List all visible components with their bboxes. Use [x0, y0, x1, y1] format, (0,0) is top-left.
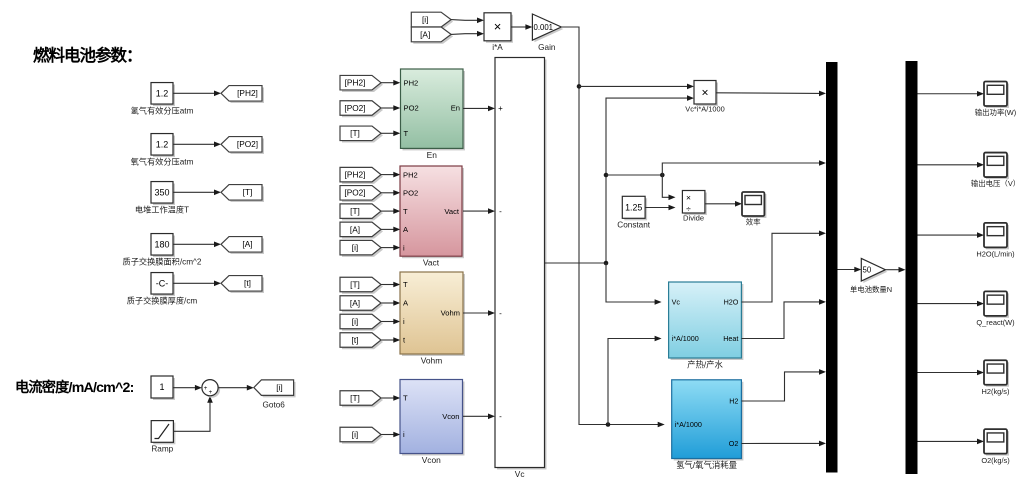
wire	[381, 80, 400, 86]
wire demux to scope	[918, 301, 985, 307]
wire	[381, 319, 400, 325]
wire	[381, 190, 400, 196]
scope H2(kg/s)	[982, 360, 1010, 396]
wire	[218, 385, 254, 391]
svg-text:Vcon: Vcon	[442, 412, 459, 421]
svg-text:PO2: PO2	[403, 188, 418, 197]
wire	[381, 395, 400, 401]
svg-text:Constant: Constant	[617, 221, 650, 230]
svg-text:+: +	[498, 104, 503, 113]
svg-text:Vc: Vc	[515, 469, 525, 479]
svg-text:+: +	[209, 389, 213, 396]
wire O2 to mux	[741, 441, 826, 447]
svg-text:En: En	[427, 150, 438, 160]
svg-text:氢气/氧气消耗量: 氢气/氧气消耗量	[676, 460, 737, 470]
wire	[381, 208, 400, 214]
display block 效率	[742, 192, 766, 227]
svg-text:Vc: Vc	[672, 298, 681, 307]
svg-text:+: +	[204, 385, 208, 392]
svg-text:50: 50	[863, 266, 872, 275]
svg-text:Ramp: Ramp	[151, 445, 173, 454]
wire	[381, 337, 400, 343]
svg-text:[T]: [T]	[350, 279, 360, 289]
gain block Gain 0.001	[532, 14, 563, 52]
svg-text:i*A: i*A	[492, 43, 503, 52]
wire	[173, 190, 221, 196]
wire	[173, 91, 221, 97]
product block Vc*i*A/1000	[685, 81, 724, 114]
goto [PH2]	[221, 86, 264, 104]
svg-text:[PH2]: [PH2]	[237, 88, 258, 98]
subsystem Vact	[400, 166, 464, 268]
svg-text:[PH2]: [PH2]	[345, 78, 366, 88]
from [t] (Vohm input)	[340, 333, 383, 350]
svg-text:Divide: Divide	[683, 214, 704, 223]
constant P_H2 (1.2)	[131, 83, 194, 116]
svg-text:输出电压（V）: 输出电压（V）	[971, 179, 1020, 188]
svg-text:i*A/1000: i*A/1000	[675, 420, 702, 429]
wire Heat to mux	[741, 299, 826, 338]
wire	[381, 105, 400, 111]
svg-text:[t]: [t]	[244, 278, 251, 288]
svg-text:[i]: [i]	[352, 316, 358, 326]
svg-text:Vc*i*A/1000: Vc*i*A/1000	[685, 105, 724, 114]
svg-text:Q_react(W): Q_react(W)	[976, 318, 1014, 327]
svg-text:[i]: [i]	[276, 383, 282, 393]
from [T] (Vact input)	[340, 204, 383, 221]
scope O2(kg/s)	[981, 429, 1009, 465]
wire demux to scope	[918, 370, 985, 376]
wire	[451, 18, 484, 24]
from [PH2] (Vact input)	[340, 167, 383, 184]
wire Vc to heat subsystem	[606, 263, 662, 305]
svg-text:-: -	[499, 309, 502, 318]
wire demux to scope	[918, 162, 985, 168]
svg-text:Vohm: Vohm	[421, 356, 442, 366]
from [A] (Vohm input)	[340, 296, 383, 313]
goto [PO2]	[221, 137, 264, 155]
svg-text:1.25: 1.25	[625, 202, 642, 212]
from [i]	[411, 12, 453, 29]
svg-text:[PO2]: [PO2]	[237, 139, 258, 149]
svg-text:PH2: PH2	[404, 78, 419, 87]
wire Vcon to Vc	[463, 414, 495, 420]
svg-text:-: -	[499, 412, 502, 421]
svg-text:PO2: PO2	[404, 104, 419, 113]
title 电流密度/mA/cm^2	[15, 379, 134, 396]
divide block Divide	[682, 191, 707, 223]
svg-text:燃料电池参数：: 燃料电池参数：	[33, 45, 142, 65]
svg-text:Vohm: Vohm	[441, 309, 460, 318]
junction i*A/1000 to product	[577, 84, 694, 90]
constant A (180)	[123, 234, 202, 267]
scope H2O(L/min)	[976, 223, 1014, 259]
svg-text:Vact: Vact	[444, 207, 460, 216]
svg-text:质子交换膜厚度/cm: 质子交换膜厚度/cm	[127, 296, 198, 306]
svg-text:1.2: 1.2	[156, 139, 169, 149]
svg-text:T: T	[404, 129, 409, 138]
wire	[885, 267, 905, 273]
wire demux to scope	[918, 439, 985, 445]
from [i] (Vohm input)	[340, 314, 383, 331]
constant t (-C-)	[127, 273, 198, 306]
svg-text:T: T	[403, 207, 408, 216]
svg-text:350: 350	[154, 187, 169, 197]
wire	[173, 242, 221, 248]
svg-text:[T]: [T]	[243, 187, 253, 197]
svg-text:单电池数量N: 单电池数量N	[850, 285, 892, 294]
wire	[381, 300, 400, 306]
svg-text:[i]: [i]	[422, 15, 428, 25]
wire	[838, 267, 862, 273]
wire Vc output trunk	[545, 95, 695, 265]
svg-text:Gain: Gain	[538, 43, 556, 52]
from [i] (Vcon input)	[340, 427, 383, 444]
svg-text:O2(kg/s): O2(kg/s)	[981, 456, 1009, 465]
from [T] (En input)	[340, 126, 383, 143]
wire Vact to Vc	[463, 208, 495, 214]
svg-text:[PH2]: [PH2]	[345, 170, 366, 180]
wire	[173, 142, 221, 148]
svg-text:i*A/1000: i*A/1000	[672, 334, 699, 343]
svg-text:T: T	[403, 394, 408, 403]
svg-text:电堆工作温度T: 电堆工作温度T	[135, 205, 189, 215]
svg-text:Vact: Vact	[423, 258, 440, 268]
svg-text:Vcon: Vcon	[422, 455, 441, 465]
svg-text:[T]: [T]	[350, 393, 360, 403]
from [T] (Vcon input)	[340, 391, 383, 408]
from [PO2] (Vact input)	[340, 186, 383, 203]
svg-text:H2(kg/s): H2(kg/s)	[982, 387, 1010, 396]
wire H2O to mux	[741, 231, 826, 303]
svg-text:-: -	[499, 207, 502, 216]
constant T (350)	[135, 182, 189, 215]
goto [A]	[221, 237, 264, 255]
svg-text:[T]: [T]	[350, 206, 360, 216]
svg-text:[i]: [i]	[352, 429, 358, 439]
wire H2 to mux	[741, 369, 826, 401]
wire	[451, 31, 484, 37]
wire demux to scope	[918, 91, 985, 97]
svg-text:[T]: [T]	[350, 128, 360, 138]
svg-text:PH2: PH2	[403, 170, 418, 179]
goto [T]	[221, 185, 264, 203]
svg-text:效率: 效率	[746, 218, 761, 227]
subsystem 产热/产水	[669, 282, 744, 370]
scope Q_react(W)	[976, 291, 1014, 327]
svg-text:[A]: [A]	[350, 298, 360, 308]
wire	[645, 205, 675, 211]
svg-text:H2O(L/min): H2O(L/min)	[976, 250, 1014, 259]
svg-text:H2O: H2O	[724, 298, 739, 307]
junction Vc to divide and voltage out	[604, 160, 826, 177]
wire	[173, 385, 202, 391]
scope 输出电压（V）	[971, 153, 1020, 188]
svg-text:180: 180	[154, 239, 169, 249]
constant 1 (current density)	[151, 376, 175, 400]
svg-text:[t]: [t]	[352, 335, 359, 345]
svg-text:H2: H2	[729, 397, 738, 406]
from [T] (Vohm input)	[340, 277, 383, 294]
svg-text:1: 1	[159, 382, 164, 392]
svg-text:输出功率(W): 输出功率(W)	[975, 108, 1016, 117]
svg-text:[i]: [i]	[352, 243, 358, 253]
wire	[381, 172, 400, 178]
svg-text:[A]: [A]	[242, 239, 252, 249]
wire	[381, 245, 400, 251]
ramp block Ramp	[151, 421, 175, 454]
wire demux to scope	[918, 232, 985, 238]
goto [I] Goto6	[254, 380, 296, 410]
svg-text:[A]: [A]	[420, 29, 430, 39]
subsystem Vohm	[400, 272, 465, 366]
svg-text:[PO2]: [PO2]	[344, 103, 365, 113]
wire	[381, 227, 400, 233]
svg-text:T: T	[403, 280, 408, 289]
wire Vc branch to divide	[662, 175, 675, 200]
constant P_O2 (1.2)	[131, 134, 194, 167]
svg-text:×: ×	[701, 86, 708, 100]
mux bar 2	[906, 61, 918, 474]
wire	[381, 432, 400, 438]
from [PO2] (En input)	[340, 101, 383, 118]
wire	[173, 281, 221, 287]
wire Vohm to Vc	[463, 310, 495, 316]
wire	[381, 131, 400, 137]
subsystem Vcon	[400, 380, 465, 466]
svg-text:Goto6: Goto6	[263, 401, 286, 410]
svg-text:质子交换膜面积/cm^2: 质子交换膜面积/cm^2	[123, 257, 202, 267]
svg-text:×: ×	[686, 192, 691, 202]
wire gain output trunk (i*A/1000)	[561, 27, 664, 427]
sum block Vc (+---)	[495, 58, 547, 480]
goto [t]	[221, 276, 264, 294]
svg-text:0.001: 0.001	[534, 23, 554, 32]
junction i*A/1000 to heat subsystem	[606, 336, 662, 427]
svg-text:产热/产水: 产热/产水	[687, 360, 723, 370]
svg-text:×: ×	[494, 19, 502, 34]
mux bar 1	[826, 62, 838, 473]
wire	[705, 201, 742, 207]
from [A]	[411, 27, 453, 44]
svg-text:÷: ÷	[686, 203, 691, 213]
gain block 单电池数量N (50)	[850, 258, 892, 294]
constant Constant (1.25)	[617, 196, 650, 229]
product block i*A	[484, 13, 513, 52]
sum junction Add	[202, 380, 220, 398]
svg-text:[PO2]: [PO2]	[344, 188, 365, 198]
svg-text:1.2: 1.2	[156, 88, 169, 98]
svg-text:-C-: -C-	[156, 278, 169, 288]
svg-text:Heat: Heat	[723, 334, 738, 343]
wire power to mux	[716, 91, 826, 97]
wire	[511, 24, 532, 30]
from [i] (Vact input)	[340, 240, 383, 257]
subsystem En	[401, 69, 466, 160]
svg-text:O2: O2	[729, 439, 739, 448]
svg-text:电流密度/mA/cm^2:: 电流密度/mA/cm^2:	[15, 379, 134, 396]
from [A] (Vact input)	[340, 222, 383, 239]
svg-text:氧气有效分压atm: 氧气有效分压atm	[131, 157, 194, 167]
svg-text:[A]: [A]	[350, 224, 360, 234]
wire En to Vc	[463, 106, 495, 112]
from [PH2] (En input)	[340, 75, 383, 92]
scope 输出功率(W)	[975, 82, 1016, 118]
title 燃料电池参数	[33, 45, 142, 65]
svg-text:En: En	[451, 104, 460, 113]
wire	[381, 282, 400, 288]
svg-text:氢气有效分压atm: 氢气有效分压atm	[131, 106, 194, 116]
subsystem 氢气/氧气消耗量	[672, 380, 744, 470]
wire	[173, 396, 212, 432]
